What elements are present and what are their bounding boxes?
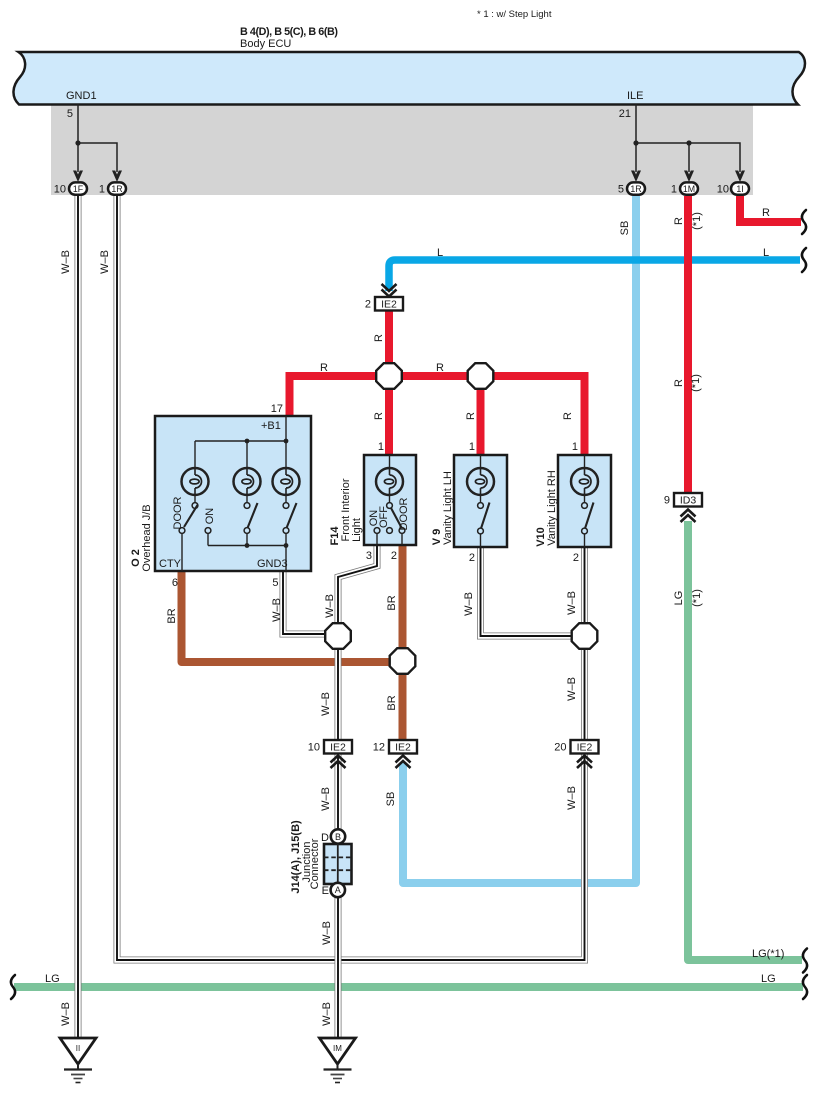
svg-text:W–B: W–B <box>320 692 332 716</box>
svg-text:LG: LG <box>673 591 685 606</box>
svg-text:R: R <box>320 362 328 374</box>
svg-text:1: 1 <box>671 183 677 195</box>
svg-text:OFF: OFF <box>378 506 390 528</box>
svg-text:5: 5 <box>272 577 278 589</box>
svg-text:W–B: W–B <box>60 1002 72 1026</box>
svg-text:2: 2 <box>469 552 475 564</box>
svg-text:+B1: +B1 <box>261 420 281 432</box>
svg-text:5: 5 <box>618 183 624 195</box>
svg-text:LG: LG <box>45 973 60 985</box>
svg-text:BR: BR <box>386 695 398 710</box>
svg-text:10: 10 <box>717 183 729 195</box>
svg-text:R: R <box>373 412 385 420</box>
svg-text:E: E <box>322 885 329 897</box>
svg-text:W–B: W–B <box>321 1002 333 1026</box>
svg-text:1: 1 <box>99 183 105 195</box>
svg-text:1I: 1I <box>736 184 743 194</box>
svg-text:R: R <box>762 207 770 219</box>
svg-text:GND3: GND3 <box>257 558 288 570</box>
svg-text:L: L <box>763 247 769 259</box>
svg-text:21: 21 <box>619 108 631 120</box>
svg-text:GND1: GND1 <box>66 90 97 102</box>
svg-text:(*1): (*1) <box>691 212 703 230</box>
svg-text:1: 1 <box>378 441 384 453</box>
svg-text:R: R <box>673 217 685 225</box>
svg-text:Body ECU: Body ECU <box>240 38 291 50</box>
svg-text:W–B: W–B <box>60 250 72 274</box>
svg-text:A: A <box>335 885 341 895</box>
svg-text:R: R <box>373 334 385 342</box>
svg-text:1: 1 <box>572 441 578 453</box>
svg-text:B: B <box>335 832 341 842</box>
svg-text:3: 3 <box>366 550 372 562</box>
svg-text:B 4(D), B 5(C), B 6(B): B 4(D), B 5(C), B 6(B) <box>240 26 338 38</box>
svg-text:L: L <box>437 247 443 259</box>
svg-text:IE2: IE2 <box>381 299 397 311</box>
svg-text:10: 10 <box>54 183 66 195</box>
svg-text:SB: SB <box>385 792 397 807</box>
svg-text:10: 10 <box>308 742 320 754</box>
svg-text:1F: 1F <box>73 184 84 194</box>
svg-text:1M: 1M <box>683 184 695 194</box>
svg-text:DOOR: DOOR <box>172 496 184 529</box>
svg-text:(*1): (*1) <box>691 589 703 607</box>
svg-text:Connector: Connector <box>309 838 321 889</box>
svg-text:IM: IM <box>333 1044 342 1053</box>
svg-text:D: D <box>321 832 329 844</box>
svg-text:BR: BR <box>166 608 178 623</box>
svg-text:W–B: W–B <box>271 598 283 622</box>
svg-text:9: 9 <box>664 495 670 507</box>
svg-text:W–B: W–B <box>320 787 332 811</box>
svg-text:W–B: W–B <box>324 594 336 618</box>
svg-text:IE2: IE2 <box>577 742 593 754</box>
svg-text:SB: SB <box>619 221 631 236</box>
svg-text:ON: ON <box>204 508 216 525</box>
svg-text:* 1 : w/ Step Light: * 1 : w/ Step Light <box>477 9 552 20</box>
svg-text:II: II <box>76 1044 80 1053</box>
svg-text:W–B: W–B <box>566 786 578 810</box>
svg-text:W–B: W–B <box>463 592 475 616</box>
svg-text:R: R <box>673 379 685 387</box>
svg-text:2: 2 <box>391 550 397 562</box>
svg-text:ILE: ILE <box>627 90 644 102</box>
svg-text:R: R <box>436 362 444 374</box>
svg-text:W–B: W–B <box>566 677 578 701</box>
svg-text:2: 2 <box>573 552 579 564</box>
svg-text:IE2: IE2 <box>395 742 411 754</box>
svg-text:R: R <box>562 412 574 420</box>
svg-text:CTY: CTY <box>159 558 182 570</box>
svg-text:1R: 1R <box>630 184 641 194</box>
svg-text:IE2: IE2 <box>330 742 346 754</box>
svg-text:1: 1 <box>469 441 475 453</box>
svg-text:20: 20 <box>554 742 566 754</box>
svg-text:Vanity Light RH: Vanity Light RH <box>546 470 558 546</box>
svg-text:W–B: W–B <box>566 591 578 615</box>
svg-text:W–B: W–B <box>321 921 333 945</box>
svg-text:LG: LG <box>761 973 776 985</box>
svg-text:1R: 1R <box>111 184 122 194</box>
svg-text:Vanity Light LH: Vanity Light LH <box>442 471 454 545</box>
svg-text:5: 5 <box>67 108 73 120</box>
svg-text:ID3: ID3 <box>680 495 697 507</box>
svg-text:17: 17 <box>271 403 283 415</box>
svg-text:Light: Light <box>351 518 363 542</box>
svg-text:Overhead J/B: Overhead J/B <box>141 504 153 571</box>
svg-text:6: 6 <box>172 577 178 589</box>
svg-text:LG(*1): LG(*1) <box>752 948 784 960</box>
svg-text:BR: BR <box>386 595 398 610</box>
svg-text:(*1): (*1) <box>690 374 702 392</box>
svg-text:R: R <box>465 412 477 420</box>
svg-text:W–B: W–B <box>99 250 111 274</box>
svg-text:2: 2 <box>365 299 371 311</box>
svg-text:DOOR: DOOR <box>398 497 410 530</box>
svg-text:12: 12 <box>373 742 385 754</box>
